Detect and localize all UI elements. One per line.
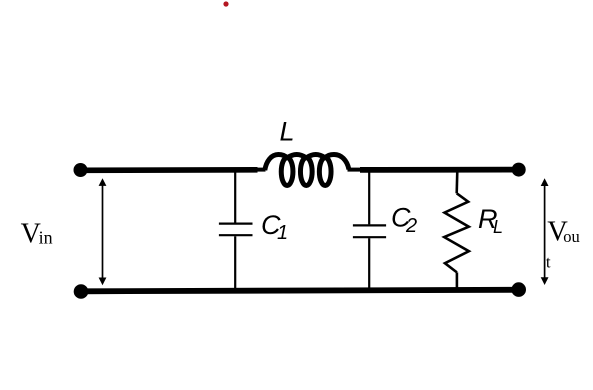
svg-text:L: L [493,217,503,237]
Vin measurement arrow [99,178,107,285]
Vout measurement arrow [541,178,549,285]
svg-text:L: L [280,117,295,147]
wire top rail right [360,167,518,173]
node dot bottom-right [511,282,526,297]
wire bottom rail [81,290,519,292]
svg-text:ou: ou [563,227,580,246]
resistor RL [444,171,469,288]
red dot [223,1,228,6]
inductor L [256,155,361,186]
node dot bottom-left [74,284,89,299]
svg-text:in: in [39,228,53,248]
node dot top-right [512,163,526,177]
node dot top-left [74,163,88,177]
wire top rail left [81,167,258,173]
capacitor C2 [353,171,386,289]
capacitor C1 [219,171,253,290]
svg-text:1: 1 [277,222,288,244]
svg-text:t: t [546,252,551,271]
svg-text:2: 2 [405,215,417,237]
